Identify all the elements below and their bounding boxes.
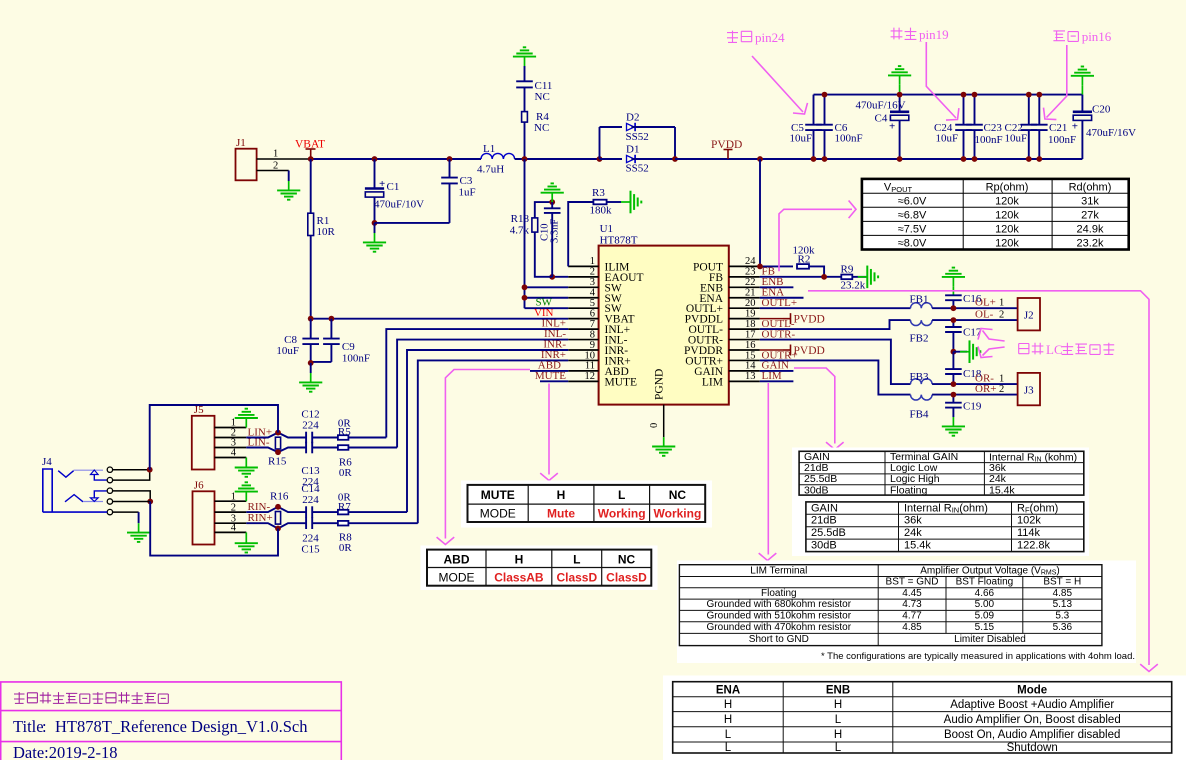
svg-text:L: L bbox=[835, 742, 842, 754]
svg-text:J3: J3 bbox=[1024, 385, 1034, 397]
svg-text:17: 17 bbox=[745, 329, 756, 340]
svg-text:16: 16 bbox=[745, 340, 756, 351]
wire RIN- bbox=[246, 507, 306, 512]
svg-text:NC: NC bbox=[669, 488, 687, 502]
svg-text:C23: C23 bbox=[984, 122, 1003, 134]
svg-text:3: 3 bbox=[590, 277, 595, 288]
pin 14 GAIN bbox=[729, 370, 760, 372]
wire loop to LIN bbox=[150, 405, 278, 470]
svg-text:Rd(ohm): Rd(ohm) bbox=[1069, 182, 1112, 194]
svg-text:120k: 120k bbox=[995, 224, 1019, 236]
pin 2 EAOUT bbox=[568, 276, 598, 278]
pin 19 PVDDL bbox=[729, 318, 760, 320]
wire LIN+ bbox=[246, 433, 306, 438]
wire bbox=[375, 222, 450, 224]
svg-text:4.7k: 4.7k bbox=[510, 225, 530, 237]
svg-text:BST = H: BST = H bbox=[1043, 577, 1081, 588]
svg-text:MUTE: MUTE bbox=[605, 376, 638, 388]
pin 12 MUTE bbox=[568, 380, 598, 382]
table ABD mode bbox=[421, 546, 658, 591]
capacitor C4 bbox=[899, 95, 901, 112]
connector J1 bbox=[236, 149, 257, 181]
svg-text:4.77: 4.77 bbox=[902, 611, 922, 622]
annotation near pin19 bbox=[891, 28, 903, 40]
pin 3 SW bbox=[568, 286, 598, 288]
table LIM terminal bbox=[677, 561, 1136, 664]
svg-text:24: 24 bbox=[745, 256, 756, 267]
svg-text:9: 9 bbox=[590, 340, 595, 351]
wire gnd bus bbox=[814, 94, 1083, 96]
svg-text:1: 1 bbox=[590, 256, 595, 267]
wire ENB bbox=[760, 286, 794, 288]
pin 22 ENB bbox=[729, 286, 760, 288]
node bbox=[329, 316, 335, 322]
wire INL- bbox=[397, 340, 568, 448]
annotation GAIN arrow bbox=[794, 368, 835, 444]
wire bbox=[113, 511, 139, 513]
pin 13 LIM bbox=[729, 380, 760, 382]
node bbox=[372, 156, 378, 162]
capacitor C24 bbox=[963, 95, 965, 125]
capacitor C18 bbox=[952, 352, 954, 369]
pin 1 bbox=[215, 500, 247, 502]
pin 5 SW bbox=[568, 307, 598, 309]
wire bbox=[809, 266, 824, 276]
jack switch arrow bbox=[91, 498, 99, 502]
svg-text:R5: R5 bbox=[338, 426, 351, 438]
svg-text:5.09: 5.09 bbox=[975, 611, 995, 622]
node bbox=[308, 316, 314, 322]
ground bbox=[551, 193, 553, 202]
wire bbox=[374, 197, 376, 223]
svg-text:MUTE: MUTE bbox=[481, 488, 515, 502]
pin 20 OUTL+ bbox=[729, 307, 760, 309]
svg-text:10R: 10R bbox=[317, 226, 336, 238]
svg-text:FB1: FB1 bbox=[910, 294, 929, 306]
svg-text:10: 10 bbox=[585, 350, 596, 361]
wire bbox=[524, 122, 526, 159]
pin 10 INR+ bbox=[568, 359, 598, 361]
svg-text:Date:2019-2-18: Date:2019-2-18 bbox=[13, 743, 117, 760]
wire GAIN stub bbox=[760, 370, 794, 372]
svg-text:23.2k: 23.2k bbox=[841, 280, 866, 292]
svg-text:C1: C1 bbox=[387, 181, 400, 193]
wire bbox=[524, 66, 526, 81]
svg-text:C9: C9 bbox=[342, 341, 355, 353]
svg-text:4.85: 4.85 bbox=[1053, 588, 1073, 599]
svg-text:NC: NC bbox=[618, 553, 636, 567]
table GAIN resistance bbox=[806, 502, 1084, 552]
svg-text:Audio Amplifier On, Boost disa: Audio Amplifier On, Boost disabled bbox=[944, 714, 1121, 726]
svg-text:1: 1 bbox=[231, 491, 236, 502]
svg-text:Mute: Mute bbox=[547, 507, 575, 521]
wire INL+ bbox=[386, 329, 568, 437]
svg-text:C15: C15 bbox=[301, 544, 320, 556]
wire INR- bbox=[407, 350, 568, 512]
svg-text:100nF: 100nF bbox=[975, 134, 1003, 146]
ground bbox=[952, 417, 954, 426]
wire VIN bbox=[310, 236, 312, 319]
ground bbox=[899, 75, 901, 84]
svg-text:MODE: MODE bbox=[480, 507, 516, 521]
wire sleeve bbox=[43, 511, 107, 513]
svg-text:4.45: 4.45 bbox=[902, 588, 922, 599]
pin 1 bbox=[215, 427, 247, 429]
svg-text:C4: C4 bbox=[875, 113, 888, 125]
jack pins bbox=[107, 467, 112, 472]
svg-text:BST Floating: BST Floating bbox=[956, 577, 1014, 588]
resistor R3 bbox=[593, 200, 606, 205]
svg-text:R7: R7 bbox=[338, 501, 351, 513]
svg-text:U1: U1 bbox=[600, 223, 613, 235]
wire bbox=[524, 87, 526, 111]
op-amp U1 HT878T body bbox=[599, 246, 729, 405]
wire bbox=[288, 171, 290, 182]
resistor R4 bbox=[522, 112, 528, 123]
jack ring contact bbox=[65, 495, 83, 502]
svg-text:FB4: FB4 bbox=[910, 409, 929, 421]
svg-text:R18: R18 bbox=[511, 213, 530, 225]
svg-text:≈8.0V: ≈8.0V bbox=[898, 238, 927, 250]
ground bbox=[621, 201, 631, 203]
svg-text:+: + bbox=[1072, 120, 1078, 132]
wire OUTL- bbox=[760, 320, 911, 329]
svg-text:470uF/16V: 470uF/16V bbox=[856, 100, 906, 112]
svg-text:1: 1 bbox=[273, 149, 278, 160]
ground bbox=[288, 181, 290, 190]
node bbox=[951, 392, 957, 398]
annotation output LC filter bbox=[1019, 344, 1029, 354]
table MUTE mode bbox=[461, 481, 712, 528]
svg-text:H: H bbox=[724, 699, 732, 711]
svg-text:25.5dB: 25.5dB bbox=[811, 527, 846, 539]
svg-text:≈6.8V: ≈6.8V bbox=[898, 210, 927, 222]
svg-text:Mode: Mode bbox=[1017, 685, 1047, 697]
svg-text:224: 224 bbox=[302, 494, 319, 506]
node bbox=[522, 284, 528, 290]
svg-text:PVDD: PVDD bbox=[794, 345, 825, 357]
svg-text:8: 8 bbox=[590, 329, 595, 340]
svg-text:H: H bbox=[557, 488, 566, 502]
svg-text:100nF: 100nF bbox=[835, 133, 863, 145]
wire bbox=[113, 491, 151, 502]
svg-text:LIM Terminal: LIM Terminal bbox=[750, 565, 807, 576]
inductor L1 bbox=[481, 153, 515, 159]
wire PVDD rail bbox=[675, 158, 1082, 160]
pin 18 OUTL- bbox=[729, 328, 760, 330]
wire bbox=[631, 126, 675, 128]
svg-text:5.00: 5.00 bbox=[975, 599, 995, 610]
svg-text:36k: 36k bbox=[904, 515, 922, 527]
ferrite bead FB1 bbox=[911, 303, 933, 308]
svg-text:21dB: 21dB bbox=[811, 515, 837, 527]
svg-text:10uF: 10uF bbox=[790, 133, 813, 145]
svg-text:NC: NC bbox=[535, 91, 550, 103]
table Vpout Rp Rd bbox=[862, 179, 1129, 250]
svg-text:SS52: SS52 bbox=[626, 163, 649, 175]
svg-text:0R: 0R bbox=[339, 467, 353, 479]
node bbox=[275, 430, 281, 436]
wire OR+ bbox=[932, 394, 1018, 396]
ground bbox=[663, 437, 665, 446]
svg-text:HT878T: HT878T bbox=[600, 235, 638, 247]
resistor R7 bbox=[338, 510, 349, 515]
wire LIM stub bbox=[760, 380, 794, 382]
capacitor C6 bbox=[824, 95, 826, 125]
wire bbox=[599, 127, 601, 159]
svg-text:PGND: PGND bbox=[654, 369, 666, 400]
svg-text:15: 15 bbox=[745, 350, 756, 361]
svg-text:+: + bbox=[889, 120, 895, 132]
svg-text:1uF: 1uF bbox=[459, 187, 476, 199]
connector J5 bbox=[192, 416, 215, 470]
node bbox=[597, 156, 603, 162]
node bbox=[275, 526, 281, 532]
ground bbox=[952, 277, 954, 286]
svg-text:GAIN: GAIN bbox=[811, 502, 838, 514]
pin 9 INR- bbox=[568, 349, 598, 351]
pin 23 FB bbox=[729, 276, 760, 278]
svg-text:RF(ohm): RF(ohm) bbox=[1017, 502, 1058, 514]
wire bbox=[631, 158, 675, 160]
capacitor C13 bbox=[305, 442, 307, 454]
pin 1 ILIM bbox=[568, 265, 598, 267]
wire bbox=[374, 223, 376, 233]
resistor R16 bbox=[275, 512, 280, 525]
svg-text:4.73: 4.73 bbox=[902, 599, 922, 610]
company name bbox=[14, 692, 25, 703]
resistor R2 bbox=[797, 264, 809, 269]
svg-text:R2: R2 bbox=[798, 254, 811, 266]
svg-text:R9: R9 bbox=[841, 264, 854, 276]
svg-text::: : bbox=[42, 717, 47, 736]
node bbox=[275, 449, 281, 455]
wire bbox=[852, 276, 867, 278]
wire bbox=[113, 469, 150, 471]
node bbox=[757, 156, 763, 162]
svg-text:Grounded with 680kohm resistor: Grounded with 680kohm resistor bbox=[707, 599, 852, 610]
svg-text:Shutdown: Shutdown bbox=[1007, 742, 1058, 754]
svg-text:L: L bbox=[725, 729, 732, 741]
node bbox=[951, 317, 957, 323]
node bbox=[951, 349, 957, 355]
svg-text:4: 4 bbox=[231, 523, 237, 534]
pin 21 ENA bbox=[729, 297, 760, 299]
svg-text:102k: 102k bbox=[1017, 515, 1041, 527]
svg-text:Working: Working bbox=[654, 507, 702, 521]
node bbox=[308, 156, 314, 162]
svg-text:L: L bbox=[618, 488, 625, 502]
svg-text:D1: D1 bbox=[626, 144, 639, 156]
resistor R1 bbox=[310, 159, 312, 213]
table GAIN terminal bbox=[792, 448, 1089, 557]
svg-text:ClassAB: ClassAB bbox=[494, 571, 544, 585]
wire OUTL+ bbox=[760, 307, 911, 309]
capacitor C9 bbox=[330, 319, 332, 339]
svg-text:5.15: 5.15 bbox=[975, 622, 995, 633]
wire OUTR+ bbox=[760, 360, 911, 394]
node bbox=[447, 156, 453, 162]
svg-text:H: H bbox=[834, 699, 842, 711]
wire bbox=[113, 470, 150, 480]
resistor R9 bbox=[841, 275, 852, 280]
svg-text:10uF: 10uF bbox=[276, 345, 299, 357]
capacitor C21 bbox=[1038, 95, 1040, 125]
capacitor C8 bbox=[310, 319, 312, 339]
pin 4 bbox=[215, 457, 247, 459]
capacitor C10 bbox=[551, 202, 553, 208]
annotation FB arrow to table bbox=[779, 209, 852, 271]
pin 24 POUT bbox=[729, 265, 760, 267]
svg-text:RIN+: RIN+ bbox=[248, 512, 273, 524]
svg-text:ClassD: ClassD bbox=[556, 571, 597, 585]
svg-text:2: 2 bbox=[273, 161, 278, 172]
wire INR+ bbox=[418, 360, 568, 523]
pin 17 OUTR- bbox=[729, 339, 760, 341]
ground bbox=[245, 532, 247, 543]
svg-text:J2: J2 bbox=[1024, 310, 1034, 322]
svg-text:0: 0 bbox=[649, 423, 660, 428]
wire bbox=[312, 522, 338, 524]
svg-text:Grounded with 510kohm resistor: Grounded with 510kohm resistor bbox=[707, 611, 852, 622]
svg-text:MODE: MODE bbox=[439, 571, 475, 585]
capacitor C11 bbox=[516, 80, 533, 82]
svg-text:4.85: 4.85 bbox=[902, 622, 922, 633]
node bbox=[275, 504, 281, 510]
diode D1 bbox=[600, 158, 623, 160]
svg-text:C21: C21 bbox=[1049, 122, 1067, 134]
pin 7 INL+ bbox=[568, 328, 598, 330]
connector J6 bbox=[193, 491, 215, 544]
svg-text:OR+: OR+ bbox=[975, 383, 996, 395]
resistor R8 bbox=[338, 521, 349, 526]
svg-text:2: 2 bbox=[590, 267, 595, 278]
svg-text:15.4k: 15.4k bbox=[989, 484, 1015, 496]
pin 15 OUTR+ bbox=[729, 359, 760, 361]
svg-text:L: L bbox=[573, 553, 580, 567]
capacitor C14 bbox=[305, 506, 307, 518]
ground bbox=[858, 276, 868, 278]
wire bbox=[952, 408, 954, 417]
svg-text:BST = GND: BST = GND bbox=[886, 577, 939, 588]
svg-text:24.9k: 24.9k bbox=[1077, 224, 1104, 236]
svg-text:R3: R3 bbox=[592, 187, 605, 199]
annotation near pin16 bbox=[1053, 31, 1065, 41]
node bbox=[951, 305, 957, 311]
svg-text:23.2k: 23.2k bbox=[1077, 238, 1104, 250]
svg-text:13: 13 bbox=[745, 371, 756, 382]
svg-text:C3: C3 bbox=[460, 175, 473, 187]
svg-text:D2: D2 bbox=[626, 112, 639, 124]
title block bbox=[1, 682, 342, 760]
capacitor C17 bbox=[952, 320, 954, 327]
wire POUT bbox=[760, 265, 793, 267]
svg-text:23: 23 bbox=[745, 267, 756, 278]
svg-text:18: 18 bbox=[745, 319, 756, 330]
pin 3 bbox=[215, 522, 247, 524]
svg-text:SS52: SS52 bbox=[626, 131, 649, 143]
svg-text:12: 12 bbox=[585, 371, 596, 382]
ground bbox=[245, 458, 247, 468]
annotation near pin24 bbox=[727, 31, 738, 43]
pin 16 PVDDR bbox=[729, 349, 760, 351]
svg-text:30dB: 30dB bbox=[804, 484, 829, 496]
svg-text:5: 5 bbox=[590, 298, 595, 309]
capacitor C12 bbox=[305, 432, 307, 444]
svg-text:Amplifier Output Voltage (VRMS: Amplifier Output Voltage (VRMS) bbox=[920, 565, 1060, 576]
svg-text:PVDD: PVDD bbox=[794, 314, 825, 326]
svg-text:2: 2 bbox=[999, 384, 1004, 395]
svg-text:22: 22 bbox=[745, 277, 756, 288]
ground bbox=[374, 233, 376, 242]
svg-text:* The configurations are typic: * The configurations are typically measu… bbox=[821, 651, 1135, 662]
wire bbox=[312, 437, 338, 439]
svg-text:LC: LC bbox=[1046, 342, 1063, 357]
svg-text:19: 19 bbox=[745, 308, 756, 319]
svg-text:≈7.5V: ≈7.5V bbox=[898, 224, 927, 236]
node bbox=[821, 274, 827, 280]
svg-text:OL+: OL+ bbox=[975, 297, 996, 309]
jack tip contact bbox=[58, 471, 73, 478]
svg-text:pin16: pin16 bbox=[1082, 29, 1112, 44]
svg-text:LIM: LIM bbox=[702, 376, 723, 388]
svg-text:≈6.0V: ≈6.0V bbox=[898, 196, 927, 208]
node bbox=[308, 360, 314, 366]
ground bbox=[245, 418, 247, 428]
svg-text:ABD: ABD bbox=[444, 553, 470, 567]
svg-text:27k: 27k bbox=[1081, 210, 1099, 222]
svg-text:2: 2 bbox=[231, 502, 236, 513]
svg-text:L: L bbox=[835, 714, 842, 726]
annotation MUTE arrow bbox=[548, 384, 550, 475]
annotation LIM arrow bbox=[767, 383, 769, 555]
capacitor C20 bbox=[1081, 95, 1083, 112]
svg-text:FB2: FB2 bbox=[910, 333, 929, 345]
capacitor C15 bbox=[305, 517, 307, 529]
pin 4 bbox=[215, 531, 247, 533]
power label PVDD pin19 bbox=[760, 318, 783, 320]
wire ENA bbox=[760, 297, 804, 299]
wire VIN bbox=[311, 318, 569, 320]
capacitor C5 bbox=[813, 95, 815, 125]
resistor R6 bbox=[338, 445, 349, 450]
svg-text:Adaptive Boost +Audio Amplifie: Adaptive Boost +Audio Amplifier bbox=[950, 699, 1114, 711]
svg-text:Short to GND: Short to GND bbox=[749, 634, 809, 645]
svg-text:pin24: pin24 bbox=[755, 30, 785, 45]
wire RIN+ bbox=[246, 523, 306, 528]
svg-text:Limiter Disabled: Limiter Disabled bbox=[954, 634, 1026, 645]
wire EAOUT bbox=[552, 276, 568, 278]
svg-text:120k: 120k bbox=[995, 210, 1019, 222]
node bbox=[951, 381, 957, 387]
svg-text:J1: J1 bbox=[236, 137, 246, 149]
node bbox=[372, 220, 378, 226]
svg-text:15.4k: 15.4k bbox=[904, 540, 931, 552]
wire MUTE bbox=[540, 380, 568, 382]
svg-text:Internal RIN (kohm): Internal RIN (kohm) bbox=[989, 451, 1077, 463]
ground bbox=[524, 57, 526, 66]
ground bbox=[138, 523, 140, 532]
svg-text:114k: 114k bbox=[1017, 527, 1041, 539]
connector J2 bbox=[1018, 298, 1040, 330]
pin 11 ABD bbox=[568, 370, 598, 372]
capacitor C3 bbox=[449, 159, 451, 178]
svg-text:24k: 24k bbox=[904, 527, 922, 539]
wire bbox=[312, 447, 338, 449]
svg-text:OUTL+: OUTL+ bbox=[762, 297, 798, 309]
pin 2 bbox=[215, 511, 247, 513]
wire bbox=[310, 363, 312, 373]
